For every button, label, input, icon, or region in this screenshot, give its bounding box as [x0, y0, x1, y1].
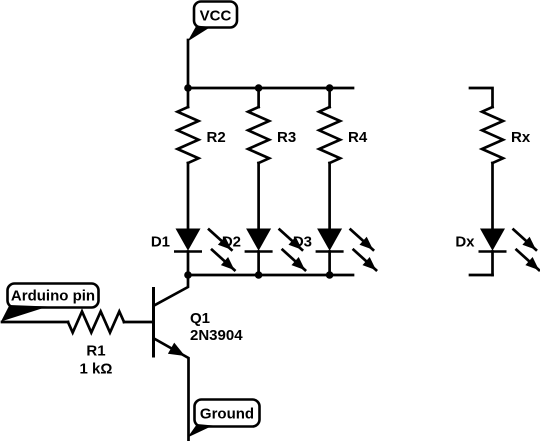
svg-text:Rx: Rx — [511, 129, 531, 146]
node junction bottom bus / D1 — [184, 271, 192, 279]
resistor Rx — [470, 88, 531, 228]
svg-text:1 kΩ: 1 kΩ — [80, 361, 113, 378]
svg-text:D1: D1 — [151, 234, 170, 251]
svg-text:R2: R2 — [207, 129, 226, 146]
wire VCC to top bus — [187, 40, 190, 88]
node junction bottom bus / D2 — [255, 271, 263, 279]
wire bottom bus — [188, 274, 353, 277]
svg-text:R1: R1 — [86, 343, 105, 360]
net flag VCC — [188, 2, 238, 42]
wire Dx bottom stub — [470, 274, 493, 277]
LED D3 — [293, 229, 376, 276]
svg-text:R4: R4 — [348, 129, 368, 146]
svg-text:D3: D3 — [293, 234, 312, 251]
net flag Arduino pin — [1, 284, 99, 322]
svg-text:2N3904: 2N3904 — [190, 327, 243, 344]
svg-text:D2: D2 — [222, 234, 241, 251]
node junction top bus / R2 — [184, 84, 192, 92]
svg-text:R3: R3 — [277, 129, 296, 146]
svg-text:Q1: Q1 — [190, 310, 210, 327]
svg-text:VCC: VCC — [200, 8, 232, 25]
LED D1 — [151, 229, 235, 276]
resistor R2 — [178, 88, 226, 228]
svg-text:Ground: Ground — [200, 406, 254, 423]
LED Dx — [455, 229, 539, 276]
node junction top bus / R4 — [326, 84, 334, 92]
wire top bus — [188, 87, 353, 90]
node junction top bus / R3 — [255, 84, 263, 92]
wire R1 to Q1 base — [124, 321, 152, 324]
svg-text:Dx: Dx — [455, 234, 475, 251]
resistor R4 — [319, 88, 368, 228]
wire Arduino pin to R1 — [2, 321, 68, 324]
resistor R1 — [68, 312, 124, 378]
svg-text:Arduino pin: Arduino pin — [11, 288, 95, 305]
node junction bottom bus / D3 — [326, 271, 334, 279]
LED D2 — [222, 229, 305, 276]
net flag Ground — [188, 400, 260, 438]
transistor Q1 — [154, 275, 244, 441]
resistor R3 — [248, 88, 296, 228]
